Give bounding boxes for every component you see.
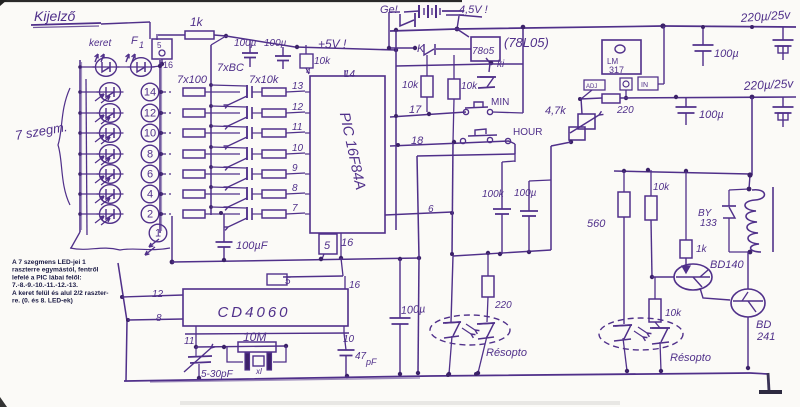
svg-text:5-30pF: 5-30pF xyxy=(201,369,234,380)
svg-text:keret: keret xyxy=(89,38,112,49)
svg-text:4,5V !: 4,5V ! xyxy=(459,4,488,16)
svg-text:8: 8 xyxy=(156,313,162,324)
svg-text:+5V !: +5V ! xyxy=(318,37,347,51)
svg-text:(78L05): (78L05) xyxy=(504,35,549,50)
svg-text:9: 9 xyxy=(292,163,298,174)
svg-text:133: 133 xyxy=(700,218,717,229)
svg-text:241: 241 xyxy=(756,331,775,343)
svg-text:BD140: BD140 xyxy=(710,259,745,271)
svg-text:47: 47 xyxy=(355,351,367,362)
svg-text:10k: 10k xyxy=(402,80,419,91)
svg-text:16: 16 xyxy=(163,60,173,70)
svg-text:1k: 1k xyxy=(696,244,708,255)
svg-text:lefelé a PIC lábai felől:: lefelé a PIC lábai felől: xyxy=(12,274,82,281)
svg-text:10k: 10k xyxy=(665,308,682,319)
svg-text:7x100: 7x100 xyxy=(177,74,208,86)
svg-text:IN: IN xyxy=(641,82,648,89)
svg-text:5: 5 xyxy=(285,276,291,287)
svg-text:220µ/25v: 220µ/25v xyxy=(742,76,794,93)
svg-text:pF: pF xyxy=(365,357,377,367)
svg-text:5: 5 xyxy=(324,240,331,252)
svg-text:78o5: 78o5 xyxy=(472,46,495,57)
svg-text:Résopto: Résopto xyxy=(670,352,711,364)
svg-text:Kijelző: Kijelző xyxy=(34,8,75,24)
svg-text:7.-8.-9.-10.-11.-12.-13.: 7.-8.-9.-10.-11.-12.-13. xyxy=(12,282,78,289)
svg-text:7: 7 xyxy=(292,203,298,214)
svg-text:17: 17 xyxy=(409,104,422,116)
svg-text:4,7k: 4,7k xyxy=(545,105,566,117)
svg-text:4: 4 xyxy=(147,189,153,201)
svg-text:12: 12 xyxy=(144,108,156,120)
svg-text:ki: ki xyxy=(497,59,505,70)
svg-text:4: 4 xyxy=(306,67,311,76)
svg-text:8: 8 xyxy=(292,183,298,194)
svg-text:MIN: MIN xyxy=(491,97,509,108)
svg-text:560: 560 xyxy=(587,218,606,230)
svg-text:220: 220 xyxy=(494,300,512,311)
svg-text:10k: 10k xyxy=(314,56,331,67)
svg-text:12: 12 xyxy=(152,289,164,300)
svg-text:ADJ: ADJ xyxy=(586,84,597,90)
svg-text:A keret felül és alul 2/2 rasz: A keret felül és alul 2/2 raszter- xyxy=(12,290,109,297)
svg-text:317: 317 xyxy=(609,65,624,75)
svg-text:100µF: 100µF xyxy=(236,240,269,252)
svg-text:CD4060: CD4060 xyxy=(217,304,290,321)
svg-text:11: 11 xyxy=(292,122,302,133)
svg-text:100µ: 100µ xyxy=(714,48,739,60)
svg-text:HOUR: HOUR xyxy=(513,127,542,138)
svg-text:14: 14 xyxy=(344,69,356,80)
svg-text:7xBC: 7xBC xyxy=(217,62,244,74)
svg-text:BD: BD xyxy=(756,319,771,331)
svg-text:10k: 10k xyxy=(653,182,670,193)
svg-text:12: 12 xyxy=(292,102,304,113)
svg-text:14: 14 xyxy=(144,87,156,99)
svg-text:5: 5 xyxy=(157,41,162,50)
svg-text:1: 1 xyxy=(155,228,161,240)
svg-text:16: 16 xyxy=(341,237,354,249)
svg-text:6: 6 xyxy=(147,169,153,181)
svg-text:A 7 szegmens LED-jei 1: A 7 szegmens LED-jei 1 xyxy=(12,259,86,266)
svg-text:100µ: 100µ xyxy=(514,188,537,199)
svg-text:11: 11 xyxy=(184,336,194,347)
svg-text:xl: xl xyxy=(255,367,262,376)
svg-text:10: 10 xyxy=(292,143,304,154)
svg-text:16: 16 xyxy=(349,280,361,291)
svg-text:13: 13 xyxy=(292,81,304,92)
svg-text:100µ: 100µ xyxy=(400,303,425,317)
svg-text:8: 8 xyxy=(147,149,153,161)
svg-text:220: 220 xyxy=(616,105,634,116)
svg-text:100µ: 100µ xyxy=(699,109,724,121)
svg-text:1: 1 xyxy=(139,40,144,50)
svg-text:100µ: 100µ xyxy=(234,38,257,49)
svg-text:7x10k: 7x10k xyxy=(249,74,279,86)
svg-text:1k: 1k xyxy=(190,15,204,29)
svg-text:10k: 10k xyxy=(461,81,478,92)
svg-text:raszterre egymástól, fentről: raszterre egymástól, fentről xyxy=(12,267,99,274)
svg-text:2: 2 xyxy=(147,209,153,221)
svg-text:Résopto: Résopto xyxy=(486,347,527,359)
svg-text:re. (0. és 8. LED-ek): re. (0. és 8. LED-ek) xyxy=(12,298,73,305)
svg-text:100k: 100k xyxy=(482,189,505,200)
svg-text:10: 10 xyxy=(144,128,156,140)
